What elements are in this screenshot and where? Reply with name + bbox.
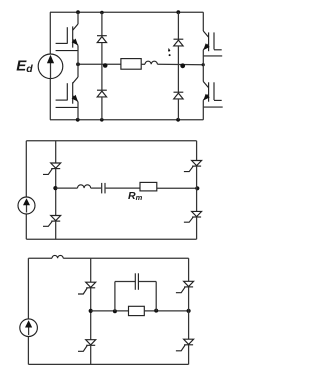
node dot mid left leg xyxy=(53,186,57,190)
node dot top rail / left diode column xyxy=(100,11,104,15)
thyristor T6 bottom-left xyxy=(78,311,96,365)
wire top rail xyxy=(26,140,196,142)
svg-text:Rm: Rm xyxy=(128,190,143,202)
wire bottom rail xyxy=(28,363,188,365)
diode D2 bottom-left freewheel xyxy=(97,90,107,120)
node dot bottom rail / right diode column xyxy=(176,118,180,122)
wire left rail upper xyxy=(49,12,51,54)
node dot mid / right diode column xyxy=(180,63,185,68)
source current circle xyxy=(20,319,38,337)
capacitor series plates xyxy=(101,183,103,194)
mark small speck xyxy=(169,54,171,56)
thyristor T1 top-left xyxy=(43,141,61,188)
inductor dc link coil xyxy=(52,255,63,258)
node dot mid / right IGBT leg xyxy=(202,63,205,66)
resistor load box xyxy=(129,306,145,315)
wire mid left segment xyxy=(91,310,129,312)
wire capacitor to box xyxy=(106,187,140,189)
source current arrow head xyxy=(23,198,30,205)
node dot mid right leg xyxy=(195,186,199,190)
thyristor T8 bottom-right xyxy=(176,311,194,365)
source current arrow head xyxy=(25,320,32,327)
node dot bottom rail / left diode column xyxy=(100,118,104,122)
wire top rail right of coil xyxy=(63,257,188,259)
transistor Q4 bottom-right IGBT (mirrored) xyxy=(203,65,222,120)
wire top rail left of coil xyxy=(28,257,52,259)
node dot top rail / left IGBT leg xyxy=(76,10,80,14)
inductor series coil xyxy=(78,185,91,188)
wire bottom rail xyxy=(26,238,196,240)
wire box to coil xyxy=(141,63,145,65)
thyristor T7 top-right xyxy=(176,258,194,311)
node dot mid / left IGBT leg xyxy=(76,62,80,66)
resistor Rm box xyxy=(140,182,157,191)
node dot cap branch left xyxy=(113,309,117,313)
svg-text:Ed: Ed xyxy=(16,58,33,75)
diode D4 bottom-right freewheel xyxy=(174,92,184,120)
source Ed circle xyxy=(38,54,63,79)
wire cap branch right stub xyxy=(155,282,157,311)
node dot mid right leg xyxy=(187,309,191,313)
source current circle xyxy=(18,197,35,214)
wire cap branch left stub xyxy=(114,282,116,312)
wire left rail lower xyxy=(27,336,29,364)
wire mid to coil xyxy=(56,187,78,189)
transistor Q2 bottom-left IGBT xyxy=(56,64,78,120)
inductor load coil xyxy=(145,61,157,64)
source current arrow shaft xyxy=(26,203,28,213)
mark small x annotation xyxy=(168,48,170,52)
wire left rail lower xyxy=(49,79,51,120)
wire coil to right columns xyxy=(157,63,203,65)
resistor load box xyxy=(121,59,141,70)
source Ed arrow shaft xyxy=(50,58,52,79)
wire coil to capacitor xyxy=(91,187,101,189)
transistor Q3 top-right IGBT (mirrored) xyxy=(203,12,222,64)
wire box to right leg xyxy=(144,310,188,312)
wire mid load wire xyxy=(78,63,121,65)
wire cap branch top left xyxy=(115,281,135,283)
node dot cap branch right xyxy=(154,309,158,313)
source current arrow shaft xyxy=(28,325,30,335)
thyristor T3 top-right xyxy=(184,141,202,189)
diode D3 top-right freewheel xyxy=(174,12,184,92)
wire box to right leg xyxy=(157,187,197,189)
wire left rail upper xyxy=(27,258,29,319)
node dot mid left leg xyxy=(89,309,93,313)
thyristor T5 top-left xyxy=(78,258,96,311)
transistor Q1 top-left IGBT xyxy=(56,12,78,64)
thyristor T2 bottom-left xyxy=(43,188,61,239)
wire top rail xyxy=(50,11,203,13)
node dot mid / left diode column xyxy=(103,63,108,68)
diode D1 top-left freewheel xyxy=(97,12,107,90)
source Ed arrow head xyxy=(47,55,54,63)
node dot bottom rail / left IGBT leg xyxy=(76,118,80,122)
wire left rail lower xyxy=(25,214,27,239)
node dot top rail / right diode column xyxy=(176,10,180,14)
wire left rail upper xyxy=(25,141,27,197)
wire cap branch top right xyxy=(139,281,156,283)
thyristor T4 bottom-right xyxy=(184,188,202,239)
wire bottom rail xyxy=(50,119,203,121)
capacitor parallel plates xyxy=(134,273,136,290)
